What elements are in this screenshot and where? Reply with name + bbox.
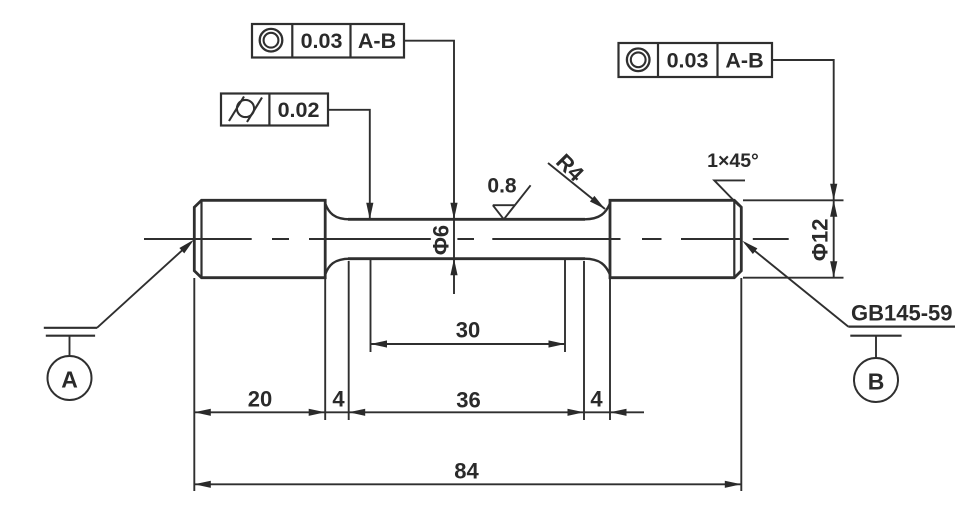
svg-text:84: 84 (454, 459, 479, 484)
fillet top right (585, 204, 611, 220)
svg-text:30: 30 (456, 318, 480, 343)
gauge section bottom edge (348, 257, 585, 260)
tolerance frame U1: concentricity 0.03 A-B (top left) (252, 24, 404, 58)
tolerance frame U2: cylindricity 0.02 (221, 94, 328, 126)
centerline (144, 238, 789, 240)
fillet top left (325, 204, 350, 220)
tolerance frame U3: concentricity 0.03 A-B (top right) (619, 43, 773, 77)
leader from frame U1 to phi6 dimension (404, 41, 454, 294)
datum B with GB145-59 (740, 238, 955, 402)
extension line gauge right (564, 260, 566, 352)
radius callout R4 (548, 149, 607, 212)
svg-text:GB145-59: GB145-59 (851, 301, 953, 326)
gauge section top edge (348, 218, 585, 221)
svg-text:0.8: 0.8 (487, 175, 517, 198)
svg-text:Φ12: Φ12 (808, 219, 833, 262)
extension line right face (740, 278, 742, 491)
extension line left face (193, 278, 195, 491)
chamfer callout 1x45 (707, 150, 759, 206)
dimension 30 (371, 318, 566, 348)
fillet bottom left (325, 259, 350, 275)
leader from frame U3 to phi12 dimension (772, 60, 834, 200)
dimension phi6 (429, 203, 458, 275)
part outline: right grip section (610, 200, 741, 277)
dimension 84 (194, 459, 741, 488)
surface finish symbol 0.8 (487, 175, 530, 220)
fillet bottom right (585, 259, 611, 275)
left chamfer line (200, 200, 202, 277)
part outline: left grip section (194, 200, 325, 277)
extension line left shoulder (324, 279, 326, 420)
svg-text:A-B: A-B (358, 29, 396, 53)
svg-text:B: B (868, 369, 885, 395)
dimension phi12 (743, 200, 844, 277)
extension line left fillet end (348, 261, 350, 420)
svg-text:0.02: 0.02 (278, 98, 320, 122)
svg-text:0.03: 0.03 (301, 29, 343, 53)
svg-text:36: 36 (456, 388, 480, 413)
extension line right shoulder (609, 279, 611, 420)
datum A (44, 237, 197, 400)
svg-text:4: 4 (590, 387, 603, 412)
svg-text:0.03: 0.03 (667, 49, 709, 73)
leader from frame U2 to surface (328, 110, 370, 220)
svg-text:Φ6: Φ6 (429, 225, 454, 255)
svg-text:20: 20 (248, 387, 272, 412)
svg-text:4: 4 (332, 387, 345, 412)
svg-text:A: A (61, 367, 78, 393)
extension line right fillet start (583, 261, 585, 420)
svg-text:1×45°: 1×45° (707, 150, 759, 172)
svg-text:A-B: A-B (725, 49, 763, 73)
right chamfer line (733, 200, 735, 277)
dimension row 20 / 4 / 36 / 4 (194, 387, 644, 416)
extension line gauge left (370, 260, 372, 352)
